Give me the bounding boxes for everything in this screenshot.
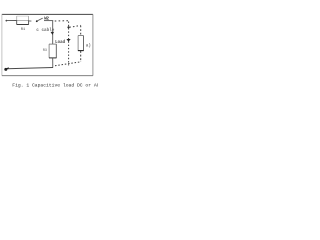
- svg-text:R3: R3: [43, 49, 47, 53]
- svg-text:a): a): [86, 43, 91, 48]
- svg-text:Fig. 1 Capacitive load DC or A: Fig. 1 Capacitive load DC or AC: [12, 82, 98, 88]
- svg-text:Load: Load: [55, 40, 66, 45]
- svg-text:R1: R1: [21, 28, 26, 32]
- svg-text:W2: W2: [44, 17, 49, 22]
- svg-text:c cable: c cable: [36, 28, 54, 33]
